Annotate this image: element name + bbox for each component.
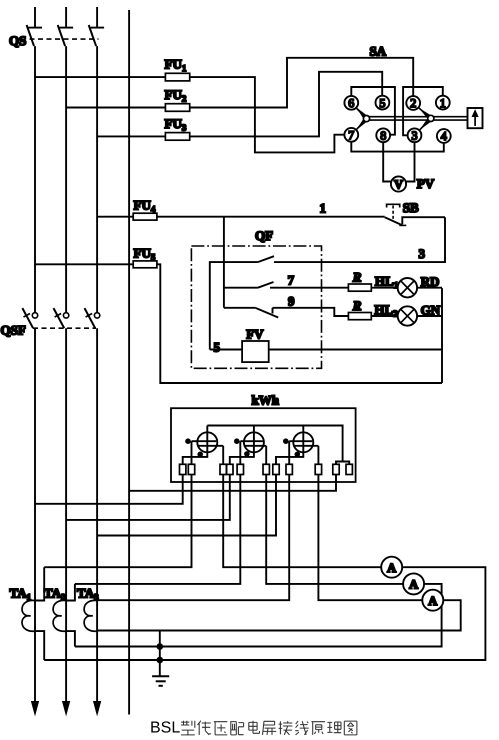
pushbutton SB cap (387, 204, 400, 207)
wire link terminal 7 to terminal 4 (351, 142, 444, 152)
wire TA1 top tap (35, 567, 44, 600)
terminal box N1 (333, 464, 339, 474)
element 3 polarity dot (283, 438, 289, 444)
element 3 current out drop (317, 446, 319, 465)
wire terminal 3 to voltmeter (406, 142, 414, 181)
wire bus L3 top stub (96, 7, 98, 28)
element 2 current coil lower (245, 445, 266, 447)
svg-text:9: 9 (288, 294, 295, 309)
terminal box 1V (180, 464, 186, 474)
wire earthing of CT secondaries (159, 631, 161, 677)
element 3 current coil upper (289, 440, 312, 442)
pushbutton SB stop contact stub (402, 217, 445, 224)
wire link terminal 1 to terminal 3 (403, 87, 443, 135)
fuse FU5 (133, 261, 157, 268)
pushbutton SB blade (385, 217, 403, 225)
terminal box 1S2 (220, 464, 226, 474)
ammeter A1 (381, 557, 402, 578)
wire net 3: SB down to QF main contact (274, 217, 445, 262)
svg-text:kWh: kWh (252, 393, 280, 408)
element 3 voltage coil lead (276, 426, 303, 465)
wire bus N (neutral) (128, 10, 130, 715)
fuse FU4 (133, 213, 157, 220)
element 1 current coil lower (198, 445, 223, 447)
wire bus L1 main (34, 46, 36, 312)
element 3 voltage dot (295, 452, 301, 458)
element 1 voltage dot (197, 452, 203, 458)
svg-text:QF: QF (255, 228, 273, 243)
element 3 current coil lower (294, 445, 318, 447)
wire lamp HL2 to right return bus (417, 315, 442, 317)
enclosure QF (dash-dot) (191, 246, 321, 368)
meter case kWh (171, 408, 356, 482)
wire element 2 current out to ammeter A2 loop (75, 475, 442, 647)
svg-text:HL2: HL2 (374, 302, 398, 319)
svg-text:R: R (352, 298, 362, 313)
element 2 current in drop (239, 441, 241, 464)
resistor R2 (348, 313, 371, 320)
resistor R1 (348, 284, 371, 291)
wire R2 to lamp HL2 (371, 315, 397, 317)
element 1 voltage coil lead (183, 426, 208, 465)
linkage QSF (dashed) (33, 327, 96, 329)
wire FU1 to SA terminal 7 (190, 77, 345, 152)
wire voltage tap phase A (35, 475, 183, 504)
wire R1 to lamp HL1 (371, 287, 397, 289)
wire lamp HL1 to right return bus (417, 287, 442, 289)
blade QSF pole 2 (54, 308, 65, 328)
wire TA2 bottom tap (66, 631, 75, 646)
svg-text:1: 1 (320, 201, 327, 216)
blade QSF pole 3 (85, 308, 96, 328)
svg-text:FU2: FU2 (165, 87, 187, 104)
svg-text:1: 1 (440, 96, 446, 110)
contact QF main blade (258, 256, 274, 262)
svg-text:3: 3 (412, 129, 418, 143)
node L2 fixed contact bar (60, 27, 74, 29)
wire aux contact 7 left lead (224, 287, 258, 289)
element 2 voltage dot (244, 451, 250, 457)
arrow bus L3 outgoing (94, 702, 101, 715)
breaker tick QSF pole 3 (86, 314, 93, 318)
ammeter A3 (422, 590, 443, 611)
terminal box 3S2 (315, 464, 321, 474)
terminal 7 of SA (344, 128, 358, 142)
svg-text:A: A (409, 578, 418, 592)
wire TA1 secondary to element 1 current in (44, 475, 191, 568)
contact circle QSF pole 2 (63, 313, 68, 318)
voltmeter PV (391, 176, 406, 191)
rotor pivot left (363, 116, 369, 122)
svg-text:A: A (428, 594, 437, 608)
terminal 2 of SA (406, 96, 420, 110)
terminal box 3V (273, 464, 279, 474)
wire voltage common bus (207, 426, 342, 462)
svg-text:FU4: FU4 (134, 198, 156, 215)
svg-text:BSL: BSL (150, 720, 180, 737)
wire L2 to FU2 (66, 107, 165, 109)
svg-text:TA3: TA3 (77, 586, 99, 603)
element 1 circle (197, 432, 217, 452)
terminal 8 of SA (376, 128, 390, 142)
wire TA3 secondary to element 3 current in (97, 475, 289, 601)
arrow bus L1 outgoing (32, 702, 39, 715)
wire bus L2 top stub (65, 7, 67, 28)
svg-text:QSF: QSF (1, 323, 26, 338)
arrow bus L2 outgoing (63, 702, 70, 715)
wire net 1: FU4 to SB (157, 216, 385, 218)
element 2 current out drop (265, 446, 267, 465)
wire neutral tap (129, 475, 336, 491)
wire FV to right return bus (269, 349, 442, 351)
element 2 current coil upper (240, 440, 263, 442)
terminal box 1S1 (188, 464, 194, 474)
wire net 5 side of QF main contact (210, 262, 258, 349)
terminal 1 of SA (436, 96, 450, 110)
svg-text:R: R (352, 270, 362, 285)
junction dot TA1 return (157, 657, 164, 664)
pushbutton SB stem (dashed) (392, 206, 394, 220)
breaker tick QSF pole 1 (24, 314, 31, 318)
wire bus L1 top stub (34, 7, 36, 28)
element 3 current in drop (288, 441, 290, 464)
wire bus L2 main (65, 46, 67, 312)
wire TA2 secondary to element 2 current in (75, 475, 240, 584)
svg-text:3: 3 (419, 246, 426, 261)
junction dot TA2 return (157, 643, 164, 650)
wire element 1 current out to ammeter A1 loop (44, 475, 485, 661)
wire neutral terminal bridge (336, 462, 349, 465)
ammeter A2 (403, 573, 424, 594)
wire voltage tap phase C (97, 475, 276, 536)
terminal box N2 (346, 464, 352, 474)
wire net 7 to resistor R1 (270, 287, 348, 289)
handle arrow (474, 115, 476, 126)
element 2 circle (244, 432, 264, 452)
svg-text:FU3: FU3 (165, 116, 187, 133)
svg-text:TA1: TA1 (10, 586, 32, 603)
wire aux contact 9 left lead (224, 307, 256, 309)
terminal box 2S2 (263, 464, 269, 474)
contact circle QSF pole 3 (94, 313, 99, 318)
element 1 current out drop (222, 446, 224, 465)
blade right rotor to 2 (418, 108, 428, 117)
wire net 9 to resistor R2 (273, 308, 349, 316)
contact 9 stop stub (272, 308, 274, 314)
svg-text:FU1: FU1 (165, 57, 187, 74)
wire bus L3 main (96, 46, 98, 312)
contact circle QSF pole 1 (32, 313, 37, 318)
wire TA2 top tap (66, 584, 75, 601)
wire L1 to FU1 (35, 76, 165, 78)
terminal 6 of SA (344, 96, 358, 110)
handle box of SA (468, 108, 483, 128)
svg-text:SB: SB (403, 200, 419, 215)
rotor pivot right (428, 115, 434, 121)
wire L3 to FU4 (97, 216, 133, 218)
CT TA2 winding (53, 600, 66, 631)
svg-text:7: 7 (288, 273, 295, 288)
svg-text:FU5: FU5 (134, 246, 156, 263)
lamp HL1 (red) (398, 278, 417, 297)
wire FU3 to SA terminal 5 (190, 72, 383, 137)
blade left rotor to 6 (356, 108, 364, 116)
terminal 4 of SA (437, 129, 451, 143)
svg-text:SA: SA (370, 44, 387, 59)
svg-text:6: 6 (348, 96, 354, 110)
contact QF aux 7 blade (258, 282, 274, 288)
wire FU2 to SA terminal 2 (190, 58, 414, 108)
wire terminal 8 to voltmeter (383, 142, 391, 181)
svg-text:8: 8 (380, 129, 386, 143)
switch QS blade phase 3 (89, 25, 96, 46)
terminal 5 of SA (376, 96, 390, 110)
wire voltage tap phase B (66, 475, 230, 520)
svg-text:TA2: TA2 (44, 586, 66, 603)
svg-text:5: 5 (214, 340, 221, 355)
wire bus L1 lower (34, 328, 36, 702)
title hanzi (stroke approximation) (181, 721, 357, 735)
terminal 3 of SA (408, 128, 422, 142)
wire bus L2 lower (65, 328, 67, 702)
CT TA3 winding (84, 600, 97, 631)
blade left rotor to 7 (356, 121, 364, 130)
node L3 fixed contact bar (91, 27, 105, 29)
fuse FU3 (165, 133, 189, 141)
undervoltage release FV (242, 341, 269, 362)
wire net 1 branch down to aux contacts (223, 217, 225, 308)
terminal box 2S1 (237, 464, 243, 474)
svg-text:4: 4 (441, 129, 447, 143)
switch QS linkage (dashed) (30, 38, 99, 40)
svg-text:PV: PV (417, 176, 435, 191)
CT TA1 winding (22, 600, 35, 631)
wire TA1 bottom tap (35, 631, 44, 660)
svg-text:V: V (394, 178, 403, 192)
svg-text:A: A (387, 561, 396, 575)
wire net 5 to FV coil (210, 349, 242, 351)
element 1 current in drop (191, 441, 193, 464)
contact QF aux 9 blade (NC) (256, 308, 278, 318)
svg-text:5: 5 (379, 96, 385, 110)
wire L3 to FU3 (97, 135, 165, 137)
svg-text:7: 7 (348, 128, 354, 142)
wire right return bus (441, 288, 443, 383)
ground symbol (152, 675, 169, 677)
wire L1 to FU5 (35, 263, 133, 265)
blade right rotor to 3 (419, 121, 428, 130)
switch QS blade phase 1 (27, 25, 34, 46)
breaker tick QSF pole 2 (55, 314, 62, 318)
node L1 fixed contact bar (29, 27, 43, 29)
wire FU5 return run (157, 264, 442, 383)
element 2 voltage coil lead (230, 426, 254, 465)
svg-text:HL1: HL1 (375, 274, 399, 291)
wire link terminal 6 to terminal 8 (351, 87, 395, 135)
element 1 polarity dot (185, 438, 191, 444)
fuse FU1 (165, 73, 189, 81)
element 3 circle (293, 432, 313, 452)
terminal box 2V (227, 464, 233, 474)
lamp HL2 (green) (398, 306, 417, 325)
switch QS blade phase 2 (58, 25, 65, 46)
wire bus L3 lower (96, 328, 98, 702)
blade QSF pole 1 (22, 308, 33, 328)
svg-text:QS: QS (9, 33, 26, 48)
wire SA shaft (double line) (369, 117, 467, 120)
element 2 polarity dot (234, 438, 240, 444)
fuse FU2 (165, 104, 189, 112)
svg-text:FV: FV (246, 327, 264, 342)
element 1 current coil upper (192, 440, 217, 442)
pushbutton SB anvil tick (399, 224, 406, 226)
wire element 3 current out to ammeter A3 loop (97, 475, 461, 631)
svg-text:2: 2 (410, 96, 416, 110)
terminal box 3S1 (286, 464, 292, 474)
